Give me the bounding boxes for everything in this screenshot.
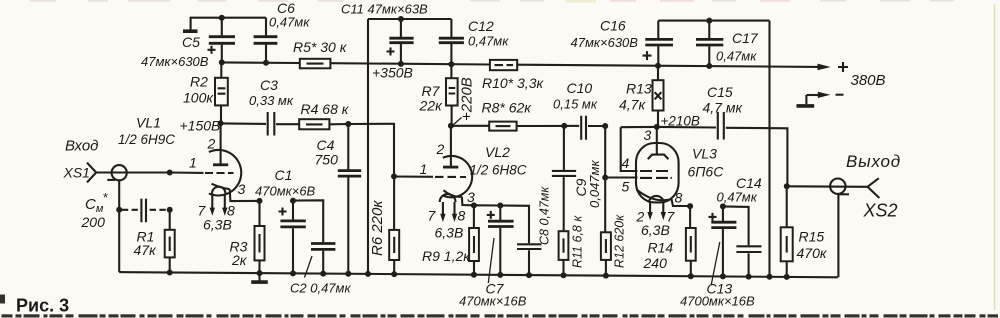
svg-text:3: 3 xyxy=(238,181,246,197)
svg-text:Вход: Вход xyxy=(65,138,98,155)
svg-text:R15: R15 xyxy=(799,229,825,245)
wire: VL2 cathode bus xyxy=(474,204,500,206)
resistor R3 2к with chassis ground xyxy=(230,201,265,273)
svg-text:XS1: XS1 xyxy=(63,165,90,181)
svg-text:R6 220к: R6 220к xyxy=(369,200,386,256)
wire: VL2 grid entry xyxy=(394,175,433,177)
resistor R2 100к xyxy=(183,62,228,123)
svg-text:R14: R14 xyxy=(648,240,674,256)
svg-text:C5: C5 xyxy=(182,34,200,50)
svg-text:4,7 мк: 4,7 мк xyxy=(703,100,744,116)
svg-text:C11 47мк×63В: C11 47мк×63В xyxy=(341,2,428,17)
capacitor C5 47мк×630В xyxy=(141,18,235,69)
triode VL2 1/2 6Н8С xyxy=(435,126,527,222)
svg-text:8: 8 xyxy=(675,190,683,206)
wire: B+ rail right segment to 380V xyxy=(517,65,818,67)
resistor R1 47к xyxy=(134,210,175,273)
svg-text:0,47мк: 0,47мк xyxy=(269,15,310,30)
svg-text:4: 4 xyxy=(622,155,630,171)
svg-text:0,47мк: 0,47мк xyxy=(468,34,509,49)
label + 380В xyxy=(838,62,886,89)
svg-text:R5* 30 к: R5* 30 к xyxy=(293,39,348,55)
junction dots on B+ rail (C16, C17 bottoms) xyxy=(655,63,661,69)
resistor R13 4,7к xyxy=(619,66,664,127)
svg-text:R8* 62к: R8* 62к xyxy=(482,100,533,116)
svg-text:R2: R2 xyxy=(190,74,208,90)
node +210В xyxy=(654,124,660,130)
node: R4/C4 junction xyxy=(345,121,351,127)
svg-text:C15: C15 xyxy=(707,84,733,100)
left edge cut mark xyxy=(0,295,5,304)
wire: VL1 anode node to C3 xyxy=(221,122,266,125)
capacitor Cм* 200 (dashed, matched) xyxy=(81,190,173,230)
node: R3 top junction xyxy=(257,198,263,204)
svg-text:VL2: VL2 xyxy=(485,144,510,160)
svg-text:0,33 мк: 0,33 мк xyxy=(249,93,294,108)
svg-text:240: 240 xyxy=(643,255,668,271)
svg-text:100к: 100к xyxy=(183,90,214,106)
svg-text:7: 7 xyxy=(428,208,437,224)
svg-text:5: 5 xyxy=(622,179,630,195)
resistor R7 22к xyxy=(419,64,458,126)
svg-text:C1: C1 xyxy=(275,167,293,183)
svg-text:VL3: VL3 xyxy=(692,146,717,162)
capacitor C17 0,47мк xyxy=(696,21,759,66)
node: C5 top junction xyxy=(219,15,225,21)
node: VL3 grid tap xyxy=(602,175,608,181)
junction dots on ground bus xyxy=(167,270,790,280)
svg-text:Выход: Выход xyxy=(846,152,901,171)
svg-text:C10: C10 xyxy=(567,80,593,96)
node dots VL2 cathode xyxy=(471,202,477,208)
svg-text:4,7к: 4,7к xyxy=(619,97,646,113)
node: VL2 grid / R6 junction xyxy=(391,173,397,179)
svg-text:0,15 мк: 0,15 мк xyxy=(553,97,598,112)
wire: C16/C17 top to ground line xyxy=(658,20,769,22)
page edge line right xyxy=(994,4,996,310)
svg-text:C12: C12 xyxy=(468,18,494,34)
bottom edge cut-off text strip xyxy=(2,314,999,317)
svg-text:R12 620к: R12 620к xyxy=(613,214,627,268)
svg-text:R11 6,8 к: R11 6,8 к xyxy=(571,215,585,268)
capacitor C15 4,7мк xyxy=(703,84,788,186)
svg-text:+350В: +350В xyxy=(372,65,413,81)
svg-text:R13: R13 xyxy=(626,81,652,97)
svg-text:470к: 470к xyxy=(797,245,828,261)
resistor R5* 30к xyxy=(293,39,348,68)
resistor R6 220к xyxy=(369,176,399,274)
capacitor C7 470мк×16В xyxy=(459,206,527,309)
resistor R8* 62к xyxy=(451,100,564,131)
svg-text:2: 2 xyxy=(207,136,216,152)
node: C10/R12 junction xyxy=(602,123,608,129)
capacitor C10 0,15мк xyxy=(553,80,605,140)
wire: ground line left (C11 loop down to bus) xyxy=(367,19,369,274)
resistor R11 6,8к xyxy=(559,215,585,276)
node +220В xyxy=(448,77,476,128)
node: VL1 grid junction xyxy=(167,170,173,176)
svg-text:6П6С: 6П6С xyxy=(688,164,725,180)
svg-text:3: 3 xyxy=(644,127,652,143)
capacitor C6 0,47мк xyxy=(254,0,311,63)
svg-text:Cм*: Cм* xyxy=(85,190,108,215)
wire: B+ rail left segment xyxy=(222,61,300,64)
svg-text:R10* 3,3к: R10* 3,3к xyxy=(482,75,544,91)
svg-text:47к: 47к xyxy=(134,242,158,258)
wire: ground line right (to bus) xyxy=(768,21,770,277)
ground (top-left, C5/C6 return) xyxy=(183,18,266,32)
svg-text:380В: 380В xyxy=(851,72,886,89)
svg-text:0,047мк: 0,047мк xyxy=(587,160,602,208)
resistor R12 620к xyxy=(601,126,627,276)
svg-text:1/2 6Н8С: 1/2 6Н8С xyxy=(470,163,527,178)
svg-text:C2 0,47мк: C2 0,47мк xyxy=(290,281,351,296)
resistor R14 240 xyxy=(643,203,696,276)
svg-text:Рис. 3: Рис. 3 xyxy=(16,296,69,316)
capacitor C1 470мк×6В xyxy=(255,167,316,274)
triode VL1 1/2 6Н9С xyxy=(118,115,260,216)
svg-text:0,47мк: 0,47мк xyxy=(716,49,757,64)
capacitor C4 750 xyxy=(315,124,362,274)
svg-text:1: 1 xyxy=(420,161,428,177)
capacitor C14 0,47мк xyxy=(717,175,762,277)
arrow +380В xyxy=(818,64,831,71)
svg-text:6,3В: 6,3В xyxy=(435,225,464,241)
wire: grid lead into VL1 xyxy=(170,171,204,173)
capacitor C13 4700мк×16В xyxy=(680,203,755,308)
resistor R10* 3,3к xyxy=(482,60,544,91)
wire: R4 node to VL2 grid xyxy=(348,124,394,177)
connector XS1 Вход xyxy=(63,138,170,273)
junction dots on B+ rail (+350В node, C11/C12 bottoms) xyxy=(398,61,404,67)
wire: B+ rail middle segment xyxy=(330,63,490,64)
node +150В xyxy=(218,120,224,126)
svg-text:6,3В: 6,3В xyxy=(203,217,232,233)
junction dots on B+ rail (C5, C6 bottoms) xyxy=(219,59,225,65)
connector XS2 Выход xyxy=(787,152,901,277)
capacitor C2 0,47мк xyxy=(290,200,351,295)
svg-text:R4 68 к: R4 68 к xyxy=(301,101,350,117)
resistor R9 1,2к xyxy=(422,205,479,275)
capacitor C8 0,47мк xyxy=(500,186,551,276)
capacitor C9 0,047мк xyxy=(552,126,602,231)
svg-text:47мк×630В: 47мк×630В xyxy=(571,35,639,50)
svg-text:470мк×6В: 470мк×6В xyxy=(255,184,316,199)
svg-text:R9 1,2к: R9 1,2к xyxy=(422,248,471,264)
capacitor C12 0,47мк xyxy=(439,18,509,64)
svg-text:+220В: +220В xyxy=(459,77,476,121)
svg-text:VL1: VL1 xyxy=(136,115,161,131)
svg-text:8: 8 xyxy=(458,208,466,224)
svg-text:1/2 6Н9С: 1/2 6Н9С xyxy=(118,132,175,147)
svg-text:XS2: XS2 xyxy=(863,201,898,221)
resistor R15 470к xyxy=(781,183,828,277)
svg-text:+150В: +150В xyxy=(180,118,221,134)
ground below R3 xyxy=(251,273,268,282)
resistor R4 68к xyxy=(299,101,350,129)
wire: ground bus (bottom rail) xyxy=(119,272,838,277)
svg-text:1: 1 xyxy=(189,155,197,171)
capacitor C16 47мк×630В xyxy=(571,18,674,66)
svg-text:C17: C17 xyxy=(732,30,759,46)
capacitor C11 47мк×63В with loop to ground line xyxy=(341,2,451,64)
svg-text:4700мк×16В: 4700мк×16В xyxy=(680,294,755,309)
top edge cut-off print artifacts xyxy=(30,0,954,2)
svg-text:C16: C16 xyxy=(600,18,626,34)
capacitor C3 0,33мк xyxy=(249,77,299,136)
svg-text:C8 0,47мк: C8 0,47мк xyxy=(538,186,552,245)
wire: +210В node to screen tap and C15 xyxy=(621,126,716,129)
svg-text:0,47мк: 0,47мк xyxy=(717,190,758,205)
svg-text:200: 200 xyxy=(81,214,106,230)
svg-text:C3: C3 xyxy=(260,77,278,93)
svg-text:470мк×16В: 470мк×16В xyxy=(459,294,527,309)
svg-text:750: 750 xyxy=(315,152,339,168)
svg-text:47мк×630В: 47мк×630В xyxy=(141,54,209,69)
pentode VL3 6П6С xyxy=(605,127,724,220)
label − terminal with ground xyxy=(797,92,844,106)
svg-text:22к: 22к xyxy=(419,98,444,114)
svg-text:2к: 2к xyxy=(231,252,248,268)
svg-text:2: 2 xyxy=(436,141,445,157)
svg-text:6,3В: 6,3В xyxy=(641,222,670,238)
